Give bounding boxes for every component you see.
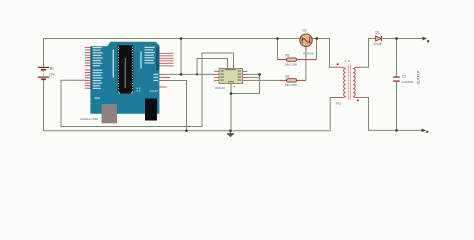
wire battery bottom — [43, 80, 45, 131]
svg-text:OUTPUT: OUTPUT — [416, 69, 420, 84]
arduino U1 board — [80, 42, 173, 124]
IC top pins — [226, 66, 229, 68]
TR1 primary coil — [344, 69, 346, 97]
svg-text:C1: C1 — [402, 75, 406, 79]
wire transformer secondary bottom to output return — [362, 98, 423, 131]
svg-text:G1: G1 — [303, 28, 307, 32]
wire IC top pin 1 loop — [197, 59, 228, 75]
wire IC right pin to R1 — [248, 79, 281, 81]
wire top rail to transformer primary top — [330, 39, 335, 68]
IC pin name text — [221, 69, 242, 82]
IC left pins — [214, 71, 219, 81]
svg-text:MTRSNB: MTRSNB — [303, 51, 314, 55]
arduino power jack — [145, 99, 157, 121]
svg-text:BY188: BY188 — [374, 42, 382, 46]
wire arduino right pin to ground — [163, 81, 187, 131]
motor G1 — [300, 28, 314, 55]
IC right pins — [243, 71, 248, 81]
svg-text:B1: B1 — [50, 67, 54, 71]
junction dots — [180, 37, 398, 132]
wire top rail — [44, 38, 330, 40]
IC bottom pin COM — [230, 84, 233, 86]
wire R2 left tee — [277, 39, 279, 60]
transformer TR1 — [334, 59, 362, 105]
svg-text:12V: 12V — [49, 73, 56, 77]
svg-text:10uF/50V: 10uF/50V — [402, 80, 414, 84]
arduino left pin headers — [85, 47, 91, 89]
terminal arrow output + — [423, 37, 430, 43]
arduino right side pin stubs — [159, 74, 170, 88]
svg-text:10k 0.25W: 10k 0.25W — [285, 62, 298, 66]
wire transformer secondary top to diode — [362, 39, 375, 68]
battery B1 — [38, 67, 56, 80]
arduino analog pin headers — [159, 53, 173, 66]
terminal arrow output - — [422, 129, 429, 134]
svg-text:RESET: RESET — [150, 89, 159, 93]
capacitor C1 — [393, 75, 413, 85]
svg-text:1 : 8: 1 : 8 — [345, 59, 351, 63]
wire R1 right to motor bottom — [305, 50, 307, 80]
wire transformer primary bottom to ground rail — [330, 98, 334, 131]
resistor R2 — [278, 54, 317, 67]
TR1 core — [348, 65, 350, 100]
arduino ANALOG IN strip — [140, 52, 141, 69]
arduino right pin labels — [145, 47, 159, 81]
TR1 secondary coil — [353, 69, 355, 97]
svg-text:10k 0.25W: 10k 0.25W — [285, 83, 298, 87]
svg-text:D1: D1 — [376, 31, 380, 35]
op-amp driver IC U2 IR2110 — [214, 66, 248, 90]
arduino usb connector — [102, 104, 118, 123]
svg-text:IR2110: IR2110 — [216, 86, 226, 90]
wire battery top — [43, 39, 45, 67]
wire VDD net from top rail to IC left pin — [163, 39, 214, 75]
wire bottom rail (ground net) — [44, 130, 331, 132]
wire R2 right to top rail — [316, 39, 318, 60]
svg-text:TR1: TR1 — [336, 101, 342, 105]
TR1 phase dots — [337, 63, 339, 65]
wire capacitor branch — [396, 39, 398, 131]
wire IC right pins to COM — [231, 74, 260, 93]
wire IC COM to ground — [230, 85, 232, 131]
resistor R1 — [280, 74, 306, 87]
TR1 pin stubs — [334, 67, 343, 97]
arduino DIGITAL PWM strip — [113, 50, 114, 78]
wire diode to output terminal — [383, 38, 424, 40]
svg-text:R2: R2 — [286, 54, 290, 58]
ground — [227, 131, 234, 137]
wire arduino left pin to IC top pin 2 — [61, 53, 234, 127]
arduino left pin labels — [93, 47, 103, 89]
svg-text:Arduino UNO: Arduino UNO — [80, 117, 99, 121]
diode D1 — [374, 31, 382, 47]
arduino atmega chip — [118, 45, 134, 93]
svg-text:R1: R1 — [286, 74, 290, 78]
